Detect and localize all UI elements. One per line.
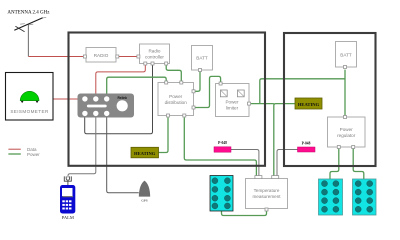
svg-text:HEATING: HEATING — [134, 151, 156, 156]
svg-text:GPS: GPS — [141, 199, 147, 203]
svg-text:ANTENNA 2.4 GHz: ANTENNA 2.4 GHz — [7, 11, 50, 16]
svg-text:Radio: Radio — [148, 49, 160, 54]
svg-text:BATT: BATT — [340, 53, 352, 58]
svg-text:measurement: measurement — [252, 194, 281, 199]
svg-text:P-048: P-048 — [302, 141, 311, 145]
svg-text:limiter: limiter — [226, 106, 239, 111]
svg-text:Power: Power — [340, 127, 353, 132]
svg-text:Power: Power — [27, 152, 40, 157]
svg-text:HEATING: HEATING — [298, 102, 320, 107]
svg-text:Power: Power — [169, 94, 182, 99]
svg-text:controller: controller — [145, 55, 164, 60]
svg-text:distribution: distribution — [165, 100, 188, 105]
svg-text:Relink: Relink — [118, 96, 128, 100]
svg-text:BATT: BATT — [196, 56, 208, 61]
svg-text:SEISMOMETER: SEISMOMETER — [10, 109, 49, 114]
svg-text:PALM: PALM — [62, 215, 74, 220]
svg-text:regulator: regulator — [337, 133, 356, 138]
svg-text:Power: Power — [225, 100, 238, 105]
svg-text:Temperature: Temperature — [254, 188, 280, 193]
svg-text:P-048: P-048 — [218, 141, 227, 145]
svg-text:RADIO: RADIO — [94, 53, 109, 58]
